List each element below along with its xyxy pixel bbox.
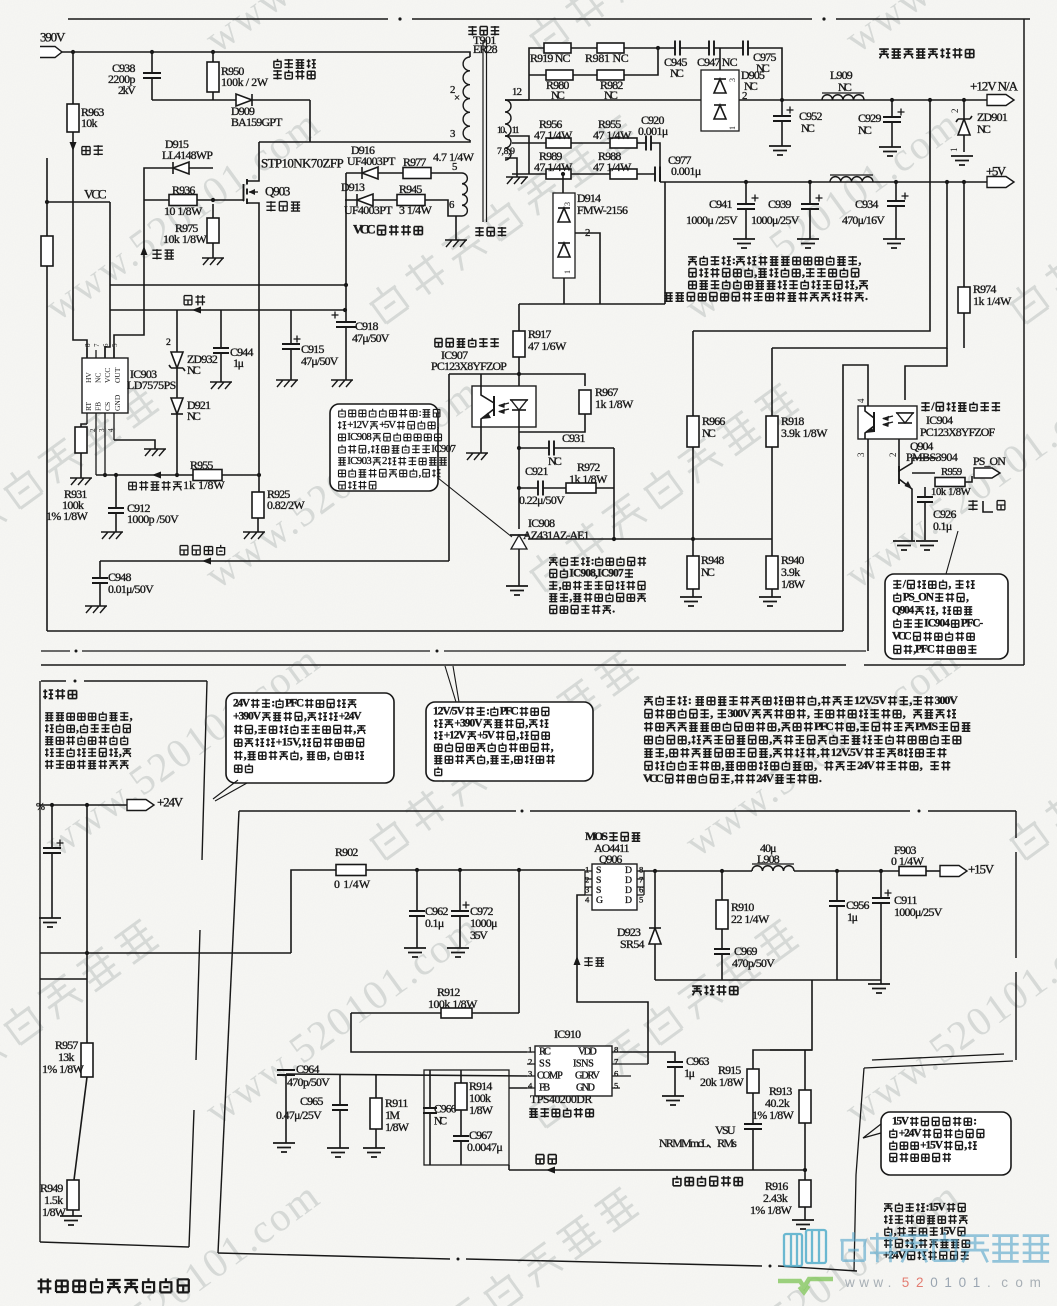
svg-text:PC123X8YFZOF: PC123X8YFZOF [920, 425, 995, 439]
node +5V output [987, 177, 1014, 188]
capacitor C975 [743, 41, 748, 56]
svg-text:1000p /50V: 1000p /50V [127, 512, 179, 526]
svg-text:24V: 24V [857, 758, 875, 772]
svg-text:47 1/4W: 47 1/4W [534, 128, 573, 142]
svg-text:+5V: +5V [379, 419, 396, 431]
wire voltage regulation control [100, 560, 449, 562]
svg-text:+12V: +12V [444, 729, 468, 741]
ground R925 [243, 532, 265, 539]
svg-text:15V: 15V [939, 1225, 957, 1237]
wire GND pin to ground [114, 440, 155, 449]
svg-text:2: 2 [950, 109, 960, 114]
svg-text::: : [973, 1115, 977, 1127]
border cut lines lower right [864, 1054, 1013, 1068]
svg-text:3 1/4W: 3 1/4W [399, 203, 433, 217]
resistor R950 [212, 52, 214, 62]
svg-text:RT: RT [84, 401, 93, 411]
svg-text:4: 4 [585, 894, 590, 904]
ground IC903 [144, 449, 166, 456]
node +12V output [987, 95, 1014, 106]
callout error amplifier note [330, 404, 438, 491]
ground C948 [85, 606, 107, 613]
wire FB stub [509, 1087, 527, 1089]
svg-text:R981 NC: R981 NC [585, 51, 629, 65]
ground R975 [202, 258, 224, 265]
svg-text:VCC: VCC [892, 630, 912, 642]
svg-text:R902: R902 [335, 845, 358, 859]
wire VCC node rail [47, 201, 110, 203]
svg-text:0.1μ: 0.1μ [933, 519, 952, 533]
svg-text:100k 1/8W: 100k 1/8W [428, 997, 478, 1011]
svg-text:2: 2 [742, 90, 747, 102]
wire VDD to C963 [620, 1052, 675, 1062]
svg-text::: : [591, 555, 595, 567]
capacitor C948 [99, 561, 101, 578]
capacitor C952 [781, 100, 783, 116]
resistor R936 [144, 199, 169, 201]
resistor R931 [81, 424, 87, 427]
capacitor C945 [675, 41, 680, 56]
svg-text:NC: NC [838, 80, 852, 94]
wire R967 loop [449, 374, 585, 386]
svg-text:FB: FB [94, 402, 103, 411]
wire bottom return rail [47, 630, 843, 632]
resistor row R989 R988 [512, 173, 546, 175]
wire C931 R972 to IC908 ref [613, 448, 615, 539]
capacitor C911 [880, 871, 882, 898]
svg-text:5: 5 [639, 894, 643, 904]
ground C918 [331, 380, 353, 387]
rectifier D914 dual diode [562, 174, 564, 193]
svg-text:VCC: VCC [353, 222, 376, 237]
secondary rail junction [780, 98, 784, 102]
capacitor C915 [290, 310, 292, 344]
svg-text:NC: NC [551, 88, 565, 102]
resistor R955 [193, 470, 222, 481]
ground IC908 [506, 586, 528, 595]
svg-text:PFC: PFC [285, 697, 304, 709]
svg-text:0: 0 [959, 1275, 967, 1290]
zener ZD932 [176, 310, 178, 352]
svg-text:R977: R977 [403, 155, 426, 169]
capacitor C962 [416, 870, 418, 911]
svg-text:VCC: VCC [103, 368, 112, 383]
capacitor C920 series [646, 136, 651, 151]
ground C912 [101, 532, 123, 539]
wire aux rail D916 [346, 172, 403, 174]
svg-text:,: , [119, 746, 122, 758]
transformer T901 label [468, 26, 476, 36]
svg-text:2: 2 [382, 455, 387, 467]
svg-text:6: 6 [102, 343, 110, 347]
svg-text:,PFC: ,PFC [913, 643, 935, 655]
svg-text:OUT: OUT [113, 367, 122, 383]
svg-text:1000μ /25V: 1000μ /25V [686, 213, 738, 227]
wire gate drive [577, 895, 648, 1064]
resistor R975 [212, 204, 214, 218]
svg-text:35V: 35V [470, 928, 488, 942]
resistor R912 [441, 1008, 472, 1018]
wire IC908 output row [528, 538, 772, 540]
svg-text:STP10NK70ZFP: STP10NK70ZFP [261, 156, 344, 171]
IC910 pin stubs [527, 1052, 535, 1088]
svg-text:470μ/16V: 470μ/16V [842, 213, 885, 227]
svg-text:,: , [368, 443, 371, 455]
svg-text:10 1/8W: 10 1/8W [164, 204, 203, 218]
label start-up [82, 147, 90, 155]
svg-text:COMP: COMP [537, 1071, 563, 1082]
svg-text:FMW-2156: FMW-2156 [577, 203, 628, 217]
svg-text:1% 1/8W: 1% 1/8W [750, 1203, 793, 1217]
svg-text:6: 6 [449, 199, 455, 211]
svg-text:0: 0 [930, 1275, 938, 1290]
svg-text:/: / [930, 399, 935, 413]
svg-text:C934: C934 [855, 197, 878, 211]
svg-text:470p/50V: 470p/50V [287, 1075, 330, 1089]
svg-text:LL4148WP: LL4148WP [162, 148, 213, 162]
repair note secondary filter [688, 257, 697, 266]
left PFC section box [41, 680, 207, 682]
svg-text:1μ: 1μ [684, 1066, 695, 1080]
svg-text:390V: 390V [40, 30, 66, 45]
capacitor 24V electrolytic [51, 805, 53, 848]
svg-text:2: 2 [916, 1275, 924, 1290]
wire feedback right branch to IC904 [905, 348, 947, 400]
svg-text::: : [419, 407, 422, 419]
wire to startup resistor [72, 52, 74, 104]
ground C972 [447, 948, 469, 957]
svg-text:1% 1/8W: 1% 1/8W [42, 1062, 85, 1076]
svg-text:m: m [1030, 1275, 1041, 1290]
svg-text:w: w [858, 1275, 869, 1290]
svg-text:UF4003PT: UF4003PT [347, 154, 396, 168]
svg-text:7: 7 [614, 1056, 619, 1066]
svg-text:+24V: +24V [157, 795, 184, 810]
svg-text:R945: R945 [399, 182, 422, 196]
resistor R913 [804, 1050, 806, 1090]
ground R916 [792, 1220, 814, 1229]
ground C915 [276, 380, 298, 387]
wire filter bottom rail [655, 979, 881, 981]
svg-text:4: 4 [107, 428, 115, 432]
wire snubber caps row [658, 47, 675, 49]
wire +24V feed into lower box [291, 870, 336, 953]
svg-text:.: . [865, 289, 868, 303]
svg-text:+15V: +15V [968, 862, 995, 877]
svg-text::: : [486, 705, 490, 717]
svg-text:.: . [819, 771, 822, 785]
svg-text:1/8W: 1/8W [385, 1120, 410, 1134]
ground aux winding [455, 216, 457, 240]
svg-text:5: 5 [614, 1080, 618, 1090]
transistor Q903 MOSFET [244, 179, 248, 204]
fuse F903 [899, 867, 926, 876]
svg-text:4: 4 [856, 398, 866, 403]
svg-text:1% 1/8W: 1% 1/8W [752, 1108, 795, 1122]
svg-text:470p/50V: 470p/50V [732, 956, 775, 970]
svg-text:1: 1 [728, 126, 737, 130]
svg-text:SS: SS [539, 1059, 551, 1070]
svg-text:4: 4 [528, 1080, 533, 1090]
svg-text:Q903: Q903 [265, 184, 290, 199]
svg-text:1k 1/8W: 1k 1/8W [183, 478, 225, 492]
wire regulation feedback lower [508, 1165, 510, 1170]
capacitor C934 [895, 182, 897, 201]
snubber resistor rows R980 R982 [529, 74, 546, 76]
switch optocoupler IC904 [858, 406, 917, 439]
svg-text:47 1/4W: 47 1/4W [593, 128, 632, 142]
repair note three-none fault [644, 697, 653, 706]
repair note sampling divider [549, 558, 558, 566]
capacitor C918 [345, 310, 347, 322]
svg-text:UF4003PT: UF4003PT [344, 203, 393, 217]
ground C941 [733, 239, 755, 248]
ground R949 [60, 1216, 82, 1225]
svg-text::: : [732, 253, 736, 267]
svg-text:C966: C966 [434, 1103, 457, 1115]
svg-text:NRMMmcL、RMs: NRMMmcL、RMs [659, 1136, 737, 1150]
diode D923 [654, 871, 656, 928]
diode D916 [362, 167, 378, 179]
svg-text:,: , [130, 710, 133, 722]
svg-text:IC903: IC903 [347, 455, 372, 467]
svg-text:NC: NC [858, 123, 872, 137]
svg-text:10k 1/8W: 10k 1/8W [163, 232, 208, 246]
wire LED cathode down [518, 410, 520, 529]
svg-text:,: , [909, 693, 912, 707]
capacitor C931 branch [519, 447, 549, 449]
label snubber circuit [273, 59, 281, 68]
capacitor C912 [115, 475, 117, 508]
svg-text:2: 2 [528, 1056, 532, 1066]
svg-text:10k 1/8W: 10k 1/8W [931, 486, 972, 498]
capacitor C944 [220, 310, 222, 348]
svg-text:3: 3 [528, 1068, 532, 1078]
svg-text:C947 NC: C947 NC [697, 55, 738, 69]
svg-text:,: , [936, 604, 939, 616]
ground R948 [680, 597, 702, 606]
svg-text:D: D [625, 895, 632, 906]
ground C934 [883, 239, 905, 248]
optocoupler IC907 [472, 386, 536, 427]
capacitor C966 [429, 1070, 431, 1108]
svg-text:+5V: +5V [986, 164, 1007, 179]
diode D915 [173, 162, 189, 174]
svg-text:47 1/4W: 47 1/4W [534, 160, 573, 174]
svg-text:w: w [844, 1275, 855, 1290]
capacitor C929 [891, 100, 893, 117]
wire D pins bridge [637, 871, 644, 895]
label transformer lower [475, 227, 483, 237]
svg-text:.: . [987, 1275, 991, 1290]
ground C963 [662, 1096, 684, 1105]
svg-text:8: 8 [614, 1044, 618, 1054]
svg-text:24V: 24V [233, 697, 251, 709]
transformer aux winding [462, 173, 467, 216]
svg-text:,: , [511, 753, 514, 765]
node +15V output [940, 866, 967, 877]
svg-text:,: , [966, 591, 969, 603]
resistor R959 and PS_ON [912, 472, 935, 474]
capacitor VSU [744, 1124, 762, 1129]
labels IC904 [921, 402, 929, 412]
ground R940 [759, 597, 781, 606]
svg-text:0 1/4W: 0 1/4W [891, 854, 925, 868]
svg-text:R955: R955 [190, 458, 213, 472]
capacitor C926 [924, 487, 926, 497]
resistor R925 [258, 475, 260, 492]
callout switch control note [946, 531, 958, 574]
lower 15V section box [239, 810, 1016, 812]
svg-text:1% 1/8W: 1% 1/8W [46, 509, 89, 523]
wire feedback sense from 15V [753, 980, 812, 1069]
svg-text:1k 1/8W: 1k 1/8W [569, 472, 608, 486]
svg-text:ER28: ER28 [473, 42, 498, 56]
svg-text:R919 NC: R919 NC [530, 51, 570, 65]
wire R918 column [771, 348, 773, 416]
svg-text:+12V: +12V [347, 419, 369, 431]
inductor L909 [822, 95, 864, 100]
svg-text:2: 2 [888, 453, 898, 458]
svg-text:PFC: PFC [500, 705, 519, 717]
svg-text:0.47μ/25V: 0.47μ/25V [276, 1108, 322, 1122]
svg-text:1: 1 [949, 148, 959, 153]
svg-text:5: 5 [902, 1275, 910, 1290]
resistor R902 [336, 865, 366, 876]
svg-text:VCC: VCC [643, 771, 664, 785]
svg-text:+24V: +24V [899, 1127, 923, 1139]
svg-text:,: , [856, 719, 859, 733]
wire +5V rail [660, 181, 988, 183]
svg-text:20k 1/8W: 20k 1/8W [700, 1075, 745, 1089]
left note text block [45, 713, 53, 721]
wire OUT pin to gate loop [114, 200, 144, 358]
svg-text:,: , [516, 729, 519, 741]
svg-text:NC: NC [94, 373, 103, 383]
svg-text:C941: C941 [709, 197, 732, 211]
wire secondary taps 789 to ground [505, 158, 517, 177]
callout 15V regulator note [881, 1112, 1011, 1175]
svg-text:+12V N/A: +12V N/A [970, 79, 1019, 94]
diode D909 [236, 94, 252, 106]
svg-text:Q904: Q904 [892, 604, 915, 616]
wire feedback bus to R917 [519, 303, 665, 305]
wire R912 rail [351, 1012, 441, 1014]
wire R966 column [692, 331, 694, 416]
svg-text:PS_ON: PS_ON [973, 454, 1006, 468]
svg-text:C921: C921 [525, 464, 548, 478]
svg-text:CS: CS [103, 402, 112, 411]
svg-text:1μ: 1μ [233, 356, 244, 370]
svg-text:,: , [817, 745, 820, 759]
wire COMP sampling bus [286, 1074, 527, 1076]
ground opto emitter [480, 427, 482, 453]
svg-text:,: , [731, 771, 734, 785]
callout 12V5V supply note [426, 702, 593, 781]
svg-text:47 1/6W: 47 1/6W [528, 339, 567, 353]
svg-text:,: , [353, 723, 356, 735]
sampling network box [424, 1070, 509, 1165]
wire secondary taps 10 11 [505, 136, 529, 174]
svg-text:.: . [612, 603, 615, 615]
svg-text:IC907: IC907 [431, 443, 456, 455]
svg-text:NC: NC [977, 122, 991, 136]
resistor R948 [692, 539, 694, 556]
wire R902 rail to R912 [518, 870, 520, 1013]
capacitor C956 [836, 871, 838, 901]
IC903 pin stubs top [87, 347, 114, 358]
svg-text:R959: R959 [941, 466, 962, 478]
svg-text:3.9k 1/8W: 3.9k 1/8W [781, 426, 828, 440]
ground C962 [404, 948, 426, 957]
capacitor C977 series [655, 167, 660, 182]
IC908 shunt regulator [510, 534, 528, 536]
resistor R914 [460, 1070, 462, 1083]
svg-text:10k: 10k [81, 116, 98, 130]
svg-text:,: , [304, 710, 307, 722]
svg-text:2: 2 [89, 428, 97, 432]
svg-text:8: 8 [897, 745, 903, 759]
wire drain rail to +15V [644, 870, 752, 872]
wire VCC rectifier to C918 [345, 173, 347, 310]
wire IC904 pin3 down [867, 439, 869, 651]
svg-text:,: , [327, 749, 330, 761]
svg-text:1: 1 [563, 270, 572, 274]
capacitor C967 [453, 1136, 469, 1141]
svg-text:,: , [814, 758, 817, 772]
svg-text:PFC-: PFC- [961, 617, 984, 629]
svg-text:PFC: PFC [814, 719, 834, 733]
svg-text:1k 1/4W: 1k 1/4W [973, 294, 1012, 308]
svg-text:w: w [872, 1275, 883, 1290]
svg-text:,: , [569, 591, 572, 603]
svg-text:1: 1 [973, 1275, 981, 1290]
svg-text:PMS: PMS [915, 719, 938, 733]
ground 24V cap [39, 918, 61, 927]
svg-text:×: × [454, 92, 460, 104]
svg-text:,: , [525, 717, 528, 729]
label filter circuit cut [43, 689, 53, 699]
svg-text:HV: HV [84, 372, 93, 383]
svg-text:1: 1 [944, 1275, 952, 1290]
wire aux rail D913 [345, 199, 397, 201]
svg-text:TPS40200DR: TPS40200DR [530, 1092, 592, 1106]
svg-text::: : [688, 693, 692, 707]
resistor R910 [721, 871, 723, 900]
svg-text:8: 8 [639, 864, 643, 874]
wire S pins bridge [585, 871, 592, 895]
svg-text:C964: C964 [296, 1062, 319, 1076]
svg-text:3: 3 [450, 128, 455, 140]
ground C939 [797, 239, 819, 248]
svg-text:0.001μ: 0.001μ [638, 124, 668, 138]
svg-text:IC908: IC908 [347, 431, 372, 443]
svg-text:0.001μ: 0.001μ [671, 164, 701, 178]
capacitor C964 [277, 1070, 295, 1075]
svg-text:3: 3 [728, 78, 737, 82]
svg-text:,: , [254, 723, 257, 735]
svg-text:0.0047μ: 0.0047μ [467, 1140, 503, 1154]
callout 24V supply note [226, 693, 394, 783]
wire phototransistor collector to regulation [448, 374, 450, 561]
wire long return rail lower [41, 650, 866, 652]
svg-text:,: , [769, 732, 772, 746]
resistor R963 [67, 104, 79, 132]
svg-text:IC910: IC910 [554, 1027, 581, 1041]
svg-text:o: o [1015, 1275, 1023, 1290]
svg-text:0.22μ/50V: 0.22μ/50V [519, 493, 565, 507]
svg-text:2kV: 2kV [118, 83, 136, 97]
